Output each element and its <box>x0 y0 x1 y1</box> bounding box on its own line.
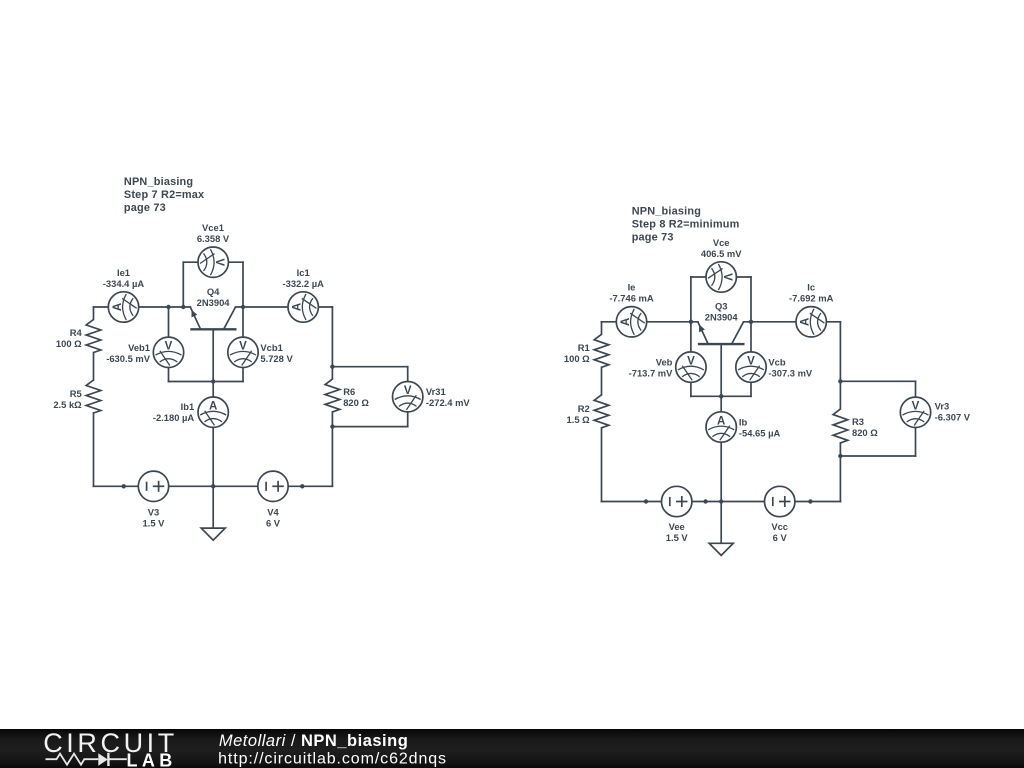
node bottom rail joint right <box>300 484 304 488</box>
wire R2 bottom lead <box>601 428 603 502</box>
voltmeter Vce1 <box>198 247 228 277</box>
svg-text:Vce406.5 mV: Vce406.5 mV <box>701 237 742 259</box>
ammeter Ic <box>796 307 826 337</box>
svg-text:A: A <box>209 401 217 413</box>
svg-text:V: V <box>747 356 755 368</box>
wire top rail left <box>602 321 699 323</box>
resistor R3 <box>833 409 848 443</box>
svg-text:Vr3-6.307 V: Vr3-6.307 V <box>935 400 971 422</box>
node bottom rail joint left <box>122 484 126 488</box>
wire Vcb tap <box>750 322 752 397</box>
node base junction <box>211 379 215 383</box>
wire top rail right <box>744 321 841 323</box>
voltmeter Vcb <box>736 352 766 382</box>
wire base to bottom <box>720 344 722 501</box>
node base junction <box>719 394 723 398</box>
svg-text:Vr31-272.4 mV: Vr31-272.4 mV <box>426 386 471 408</box>
wire top rail right <box>236 306 333 308</box>
wire R6 top lead <box>331 307 333 379</box>
wire R1 top lead <box>601 322 603 335</box>
resistor R2 <box>594 395 609 428</box>
ammeter Ic1 <box>288 292 318 322</box>
svg-text:Ic-7.692 mA: Ic-7.692 mA <box>789 282 834 304</box>
svg-text:A: A <box>800 318 812 326</box>
voltage source Vcc <box>765 486 795 516</box>
wire Vr31 top <box>332 366 407 368</box>
node R3 bottom <box>838 454 842 458</box>
wire Vr3 top <box>840 380 915 382</box>
node R3 top <box>838 379 842 383</box>
voltmeter Vcb1 <box>228 337 258 367</box>
transistor Q3 <box>698 322 745 344</box>
svg-text:Veb1-630.5 mV: Veb1-630.5 mV <box>106 342 151 364</box>
ammeter Ie <box>616 307 646 337</box>
transistor Q4 <box>190 307 236 329</box>
ammeter Ib1 <box>198 397 228 427</box>
wire base connector <box>691 395 751 397</box>
resistor R5 <box>86 380 101 413</box>
svg-text:R1100 Ω: R1100 Ω <box>564 342 590 364</box>
wire Vcb1 tap <box>242 307 244 382</box>
svg-text:V: V <box>404 385 412 397</box>
svg-text:V46 V: V46 V <box>266 506 281 528</box>
svg-text:Vcb15.728 V: Vcb15.728 V <box>260 342 293 364</box>
svg-text:V31.5 V: V31.5 V <box>143 506 166 528</box>
node ground junction <box>211 484 215 488</box>
svg-text:R4100 Ω: R4100 Ω <box>56 327 83 349</box>
node R6 bottom <box>330 424 334 428</box>
wire Vr3 vertical <box>915 381 917 456</box>
wire Veb tap <box>690 322 692 397</box>
svg-text:R6820 Ω: R6820 Ω <box>343 386 369 408</box>
wire R4-R5 <box>93 353 95 381</box>
node bottom rail joint 2 <box>703 499 707 503</box>
svg-text:Q32N3904: Q32N3904 <box>705 301 739 323</box>
wire base to bottom <box>212 329 214 486</box>
node R6 top <box>330 365 334 369</box>
svg-text:A: A <box>620 318 632 326</box>
svg-text:NPN_biasingStep 7 R2=maxpage 7: NPN_biasingStep 7 R2=maxpage 73 <box>124 176 204 214</box>
svg-text:A: A <box>292 303 304 311</box>
wire Vr3 bottom <box>840 455 915 457</box>
node collector junction <box>749 320 753 324</box>
footer bar <box>0 729 1024 768</box>
wire R3 top lead <box>839 322 841 409</box>
ground <box>720 502 722 544</box>
svg-text:Ib-54.65 µA: Ib-54.65 µA <box>739 416 781 438</box>
wire base connector <box>169 381 244 383</box>
svg-text:http://circuitlab.com/c62dnqs: http://circuitlab.com/c62dnqs <box>218 751 447 768</box>
node bottom rail joint 3 <box>808 499 812 503</box>
voltmeter Vce <box>706 262 736 292</box>
node ground junction <box>719 499 723 503</box>
wire R4 top lead <box>93 307 95 320</box>
wire Vr31 bottom <box>332 426 407 428</box>
svg-text:A: A <box>112 303 124 311</box>
node Veb1 tap <box>166 305 170 309</box>
svg-text:Ie-7.746 mA: Ie-7.746 mA <box>609 282 654 304</box>
wire Vr31 vertical <box>407 367 409 427</box>
wire Vce left <box>690 277 692 322</box>
wire R5 bottom lead <box>93 413 95 486</box>
svg-text:Vce16.358 V: Vce16.358 V <box>197 222 230 244</box>
resistor R6 <box>325 379 340 412</box>
wire Vce right <box>750 277 752 322</box>
wire Vce1 top <box>183 261 243 263</box>
voltmeter Vr3 <box>900 397 930 427</box>
node emitter junction <box>689 320 693 324</box>
resistor R4 <box>86 320 101 353</box>
svg-text:Ic1-332.2 µA: Ic1-332.2 µA <box>283 267 325 289</box>
svg-text:Q42N3904: Q42N3904 <box>197 286 231 308</box>
logo resistor zigzag <box>46 754 99 765</box>
ammeter Ie1 <box>108 292 138 322</box>
node collector junction <box>241 305 245 309</box>
node bottom rail joint 1 <box>644 499 648 503</box>
svg-text:Ie1-334.4 µA: Ie1-334.4 µA <box>103 267 145 289</box>
svg-text:R21.5 Ω: R21.5 Ω <box>567 403 591 425</box>
svg-text:Vcc6 V: Vcc6 V <box>771 521 788 543</box>
logo diode <box>98 753 108 765</box>
svg-text:V: V <box>239 341 247 353</box>
svg-text:V: V <box>213 258 225 266</box>
svg-text:Ib1-2.180 µA: Ib1-2.180 µA <box>153 401 195 423</box>
ground <box>212 486 214 528</box>
wire Veb1 tap <box>168 307 170 382</box>
svg-text:V: V <box>721 273 733 281</box>
svg-text:R52.5 kΩ: R52.5 kΩ <box>53 388 82 410</box>
svg-text:A: A <box>717 415 725 427</box>
wire Vce top <box>691 276 751 278</box>
svg-text:LAB: LAB <box>127 751 177 768</box>
voltmeter Vr31 <box>393 382 423 412</box>
wire R1-R2 <box>601 367 603 395</box>
svg-text:Metollari / NPN_biasing: Metollari / NPN_biasing <box>219 732 408 750</box>
svg-text:Veb-713.7 mV: Veb-713.7 mV <box>629 356 674 378</box>
voltage source V4 <box>258 471 288 501</box>
wire R6 bottom lead <box>331 412 333 486</box>
svg-text:V: V <box>165 341 173 353</box>
ammeter Ib <box>706 412 736 442</box>
svg-text:Vcb-307.3 mV: Vcb-307.3 mV <box>768 356 813 378</box>
node emitter junction <box>181 305 185 309</box>
resistor R1 <box>594 334 609 367</box>
svg-text:V: V <box>912 401 920 413</box>
wire Vce1 right <box>242 262 244 307</box>
wire Vce1 left <box>182 262 184 307</box>
wire bottom rail <box>94 485 333 487</box>
wire bottom rail <box>602 501 841 503</box>
voltmeter Veb1 <box>153 337 183 367</box>
voltage source Vee <box>662 486 692 516</box>
svg-text:Vee1.5 V: Vee1.5 V <box>666 521 689 543</box>
svg-text:V: V <box>687 356 695 368</box>
wire top rail left <box>94 306 191 308</box>
voltage source V3 <box>138 471 168 501</box>
wire R3 bottom lead <box>839 443 841 502</box>
voltmeter Veb <box>676 352 706 382</box>
svg-text:R3820 Ω: R3820 Ω <box>852 416 878 438</box>
